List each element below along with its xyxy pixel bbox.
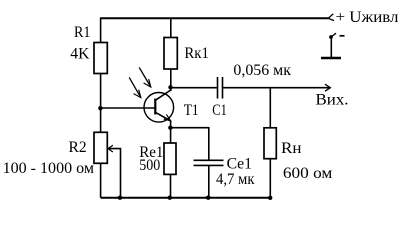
svg-text:R2: R2: [69, 139, 87, 156]
svg-text:0,056 мк: 0,056 мк: [233, 62, 291, 79]
svg-text:Rн: Rн: [281, 140, 302, 157]
svg-text:Rк1: Rк1: [184, 45, 209, 62]
svg-text:T1: T1: [184, 102, 199, 119]
svg-text:R1: R1: [74, 24, 91, 41]
svg-text:500: 500: [139, 157, 160, 174]
svg-text:4,7 мк: 4,7 мк: [216, 171, 255, 188]
svg-text:C1: C1: [212, 102, 227, 119]
svg-text:4K: 4K: [70, 45, 90, 62]
svg-text:Вих.: Вих.: [316, 92, 349, 109]
svg-text:+ Uживл: + Uживл: [336, 9, 399, 26]
svg-text:600 ом: 600 ом: [283, 165, 332, 182]
svg-text:100 - 1000 ом: 100 - 1000 ом: [3, 160, 94, 177]
